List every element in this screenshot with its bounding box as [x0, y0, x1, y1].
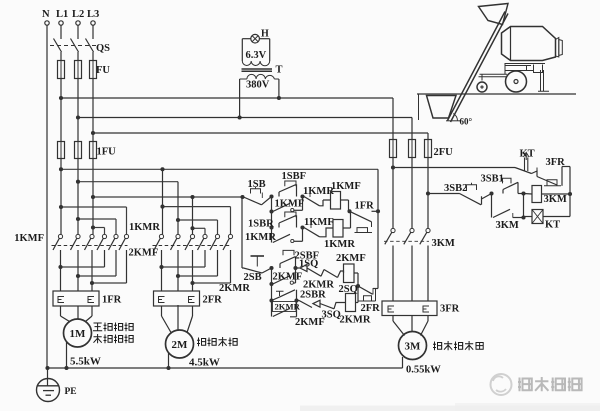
scan shadow bottom — [300, 406, 600, 411]
lamp circuit loop — [242, 38, 251, 40]
coil 2KMF — [344, 264, 355, 283]
thermal relay 2FR — [154, 291, 200, 306]
2M output wires — [161, 250, 163, 291]
contactor contacts 1KMF / 1KMR — [58, 234, 62, 238]
bus phase3 to 2FU — [93, 132, 428, 134]
node B2R — [294, 298, 298, 302]
wire coil 2KMF out — [354, 272, 358, 274]
label 进料升降 — [197, 337, 237, 346]
mixer ground line — [417, 93, 576, 95]
terminal N — [45, 21, 49, 25]
coil 1KMR — [333, 220, 343, 238]
line B phase2 feed 2M — [78, 181, 178, 183]
svg-text:FU: FU — [96, 65, 110, 76]
svg-text:1FR: 1FR — [102, 295, 122, 306]
svg-text:1KMR: 1KMR — [129, 222, 160, 233]
wire N vertical — [46, 25, 48, 368]
svg-text:PE: PE — [65, 387, 77, 397]
svg-text:1KMF: 1KMF — [14, 233, 44, 244]
svg-text:1SB: 1SB — [248, 179, 266, 190]
line C phase3 feed control — [93, 196, 242, 198]
wire L1 drop — [60, 25, 62, 39]
wire — [92, 52, 94, 61]
svg-text:3FR: 3FR — [440, 304, 460, 315]
svg-text:0.55kW: 0.55kW — [406, 365, 441, 376]
wire L3 to 1FU — [92, 79, 94, 142]
coil 3KM — [524, 193, 533, 196]
thermal relay 1FR — [53, 291, 99, 306]
node B1 — [300, 194, 304, 198]
svg-text:2KMF: 2KMF — [336, 253, 366, 264]
mixer drum — [502, 27, 556, 61]
wire coil 1KMR to 1FR — [343, 227, 351, 229]
svg-text:2KMF: 2KMF — [295, 317, 325, 328]
svg-text:2KMR: 2KMR — [219, 283, 250, 294]
contactor contacts 3KM — [391, 228, 395, 232]
coil 2KMR — [346, 294, 356, 312]
svg-text:1KMF: 1KMF — [331, 181, 361, 192]
wire L3 drop — [92, 25, 94, 39]
svg-text:6.3V: 6.3V — [246, 50, 267, 61]
button 2SBF — [279, 264, 281, 269]
mixer funnel — [479, 4, 509, 25]
mixer hopper — [427, 96, 457, 119]
svg-text:5.5kW: 5.5kW — [70, 356, 101, 368]
node 2FR in — [356, 284, 360, 288]
svg-text:1KMR: 1KMR — [303, 186, 334, 197]
button 2SB (stop) — [251, 255, 265, 257]
fuse 1FU — [58, 142, 65, 159]
cross wire phase1 to 2M contact6 — [163, 206, 231, 208]
aux contact 1KMF (hold) — [271, 197, 273, 212]
aux contact 2KMR — [271, 301, 273, 317]
logo text 技成培训 — [518, 377, 582, 391]
button 2SBR — [276, 291, 284, 296]
logo icon — [491, 374, 512, 395]
transformer T secondary — [242, 61, 269, 66]
node A2F — [269, 266, 273, 270]
mixer skip rails — [448, 12, 506, 121]
svg-text:3SB1: 3SB1 — [481, 174, 504, 185]
wire rung 1R tap — [271, 212, 273, 228]
motor 1M neutral lead — [66, 342, 68, 368]
label 正转搅拌 — [93, 323, 133, 332]
svg-text:3M: 3M — [405, 341, 422, 353]
svg-text:QS: QS — [96, 43, 110, 54]
node B2 — [300, 225, 304, 229]
wire phase2 to 1M — [77, 159, 79, 235]
svg-text:L1: L1 — [56, 9, 68, 20]
transformer primary leads — [239, 79, 241, 118]
svg-text:KT: KT — [545, 220, 560, 231]
thermal relay 3FR — [382, 301, 437, 316]
2M phase feeds — [162, 169, 164, 234]
svg-text:3KM: 3KM — [496, 220, 519, 231]
transformer T primary — [247, 74, 274, 79]
aux contact 1KMR (hold) — [271, 228, 273, 243]
svg-text:380V: 380V — [246, 80, 270, 91]
svg-text:2FU: 2FU — [434, 147, 454, 158]
aux contact 2KMR boxed label — [273, 302, 297, 312]
mixer big wheel — [506, 71, 527, 92]
svg-text:2SQ: 2SQ — [339, 284, 358, 295]
svg-text:3SB2: 3SB2 — [444, 183, 467, 194]
node A1 — [269, 194, 273, 198]
svg-text:2KMF: 2KMF — [273, 271, 303, 282]
svg-text:H: H — [261, 29, 269, 40]
svg-text:2KMR: 2KMR — [340, 315, 371, 326]
terminal L3 — [91, 21, 95, 25]
lamp H — [251, 34, 260, 43]
wire L1 to 1FU — [60, 79, 62, 142]
svg-text:2FR: 2FR — [203, 295, 223, 306]
wire L2 drop — [77, 25, 79, 39]
switch QS — [54, 39, 62, 53]
wire phase1 to 1M — [60, 159, 62, 235]
wire rung 2R tap — [271, 284, 273, 301]
svg-text:2SBR: 2SBR — [300, 290, 326, 301]
motor 2M neutral lead — [168, 353, 170, 368]
aux contact 3KM (hold) — [491, 194, 493, 218]
coil KT (time relay) — [524, 216, 533, 218]
contact 2FR NC — [358, 289, 376, 302]
node 3 coil in — [521, 191, 525, 195]
mixer frame — [479, 64, 550, 92]
fuse FU — [58, 61, 65, 79]
contactor contacts 2KMF / 2KMR — [159, 234, 163, 238]
node 3 hold — [489, 191, 493, 195]
svg-text:1FR: 1FR — [355, 201, 375, 212]
svg-text:1SBR: 1SBR — [248, 218, 274, 229]
mixer small wheel — [477, 82, 487, 92]
cross wire phase2 to 1M contact5 — [78, 218, 116, 220]
aux contact 2KMF — [271, 268, 273, 284]
svg-text:60°: 60° — [460, 117, 473, 127]
1M output wires — [60, 250, 62, 291]
svg-text:T: T — [276, 65, 283, 76]
wire coil 2KMR out — [356, 302, 359, 304]
svg-text:1SBF: 1SBF — [282, 171, 307, 182]
terminal L1 — [59, 21, 63, 25]
wire phase3 to 1M — [92, 159, 94, 235]
ground PE — [47, 368, 49, 386]
svg-text:2SB: 2SB — [244, 272, 262, 283]
transformer core — [242, 68, 273, 70]
svg-text:1KMR: 1KMR — [324, 239, 355, 250]
wire coil 1KMF to 1FR — [341, 199, 349, 201]
svg-text:4.5kW: 4.5kW — [189, 357, 220, 369]
svg-text:L2: L2 — [72, 9, 84, 20]
wire — [77, 52, 79, 61]
control right rail — [377, 169, 379, 288]
control rail 3SB row — [428, 193, 460, 195]
svg-text:3KM: 3KM — [432, 238, 455, 249]
label 供水抽水泵 — [433, 341, 483, 350]
cross wire phase2 to 2M contact5 — [178, 219, 218, 221]
bottom neutral bus — [47, 367, 403, 369]
bus phase1 to 2FU — [61, 97, 393, 99]
svg-text:1KMF: 1KMF — [275, 198, 305, 209]
line A phase1 rail — [61, 168, 378, 170]
motor 1M — [60, 306, 62, 316]
svg-text:2FR: 2FR — [361, 303, 381, 314]
wire — [60, 52, 62, 61]
node 1FR in — [347, 209, 351, 213]
angle 60 deg — [453, 114, 457, 121]
label 反转倒料 — [94, 334, 134, 343]
control right rail 3M — [569, 167, 571, 217]
svg-text:L3: L3 — [87, 9, 99, 20]
motor 3M — [392, 315, 394, 321]
mixer dimension line — [418, 94, 420, 120]
svg-text:1FU: 1FU — [97, 147, 117, 158]
svg-text:N: N — [42, 9, 50, 20]
limit switch 3SQ — [297, 300, 321, 307]
terminal L2 — [76, 21, 80, 25]
svg-text:1KMF: 1KMF — [304, 217, 334, 228]
motor 2M — [161, 306, 163, 316]
coil 1KMF — [331, 192, 341, 210]
node junction 1SB left — [240, 195, 244, 199]
wires 3KM to 3FR — [392, 246, 394, 302]
svg-text:1KMR: 1KMR — [245, 232, 276, 243]
wire L2 to 1FU — [77, 79, 79, 142]
svg-text:2M: 2M — [172, 339, 189, 351]
fuse 2FU — [390, 140, 397, 158]
cross wire phase3 to 1M contact4 — [93, 227, 105, 229]
bus phase2 to 2FU — [78, 117, 412, 119]
node B2F — [293, 266, 297, 270]
cross wire phase1 to 1M contact6 — [61, 206, 127, 208]
wires 2FU to 3KM — [392, 158, 394, 229]
button 1SBF (start fwd) — [278, 192, 280, 197]
control rail KT row — [393, 167, 515, 169]
svg-text:1M: 1M — [70, 328, 87, 340]
button 1SB (stop) — [251, 187, 261, 194]
svg-text:3KM: 3KM — [544, 194, 567, 205]
button 1SBR (start rev) — [278, 223, 280, 228]
control left rail — [241, 197, 243, 268]
cross wire phase3 to 2M contact4 — [193, 227, 206, 229]
